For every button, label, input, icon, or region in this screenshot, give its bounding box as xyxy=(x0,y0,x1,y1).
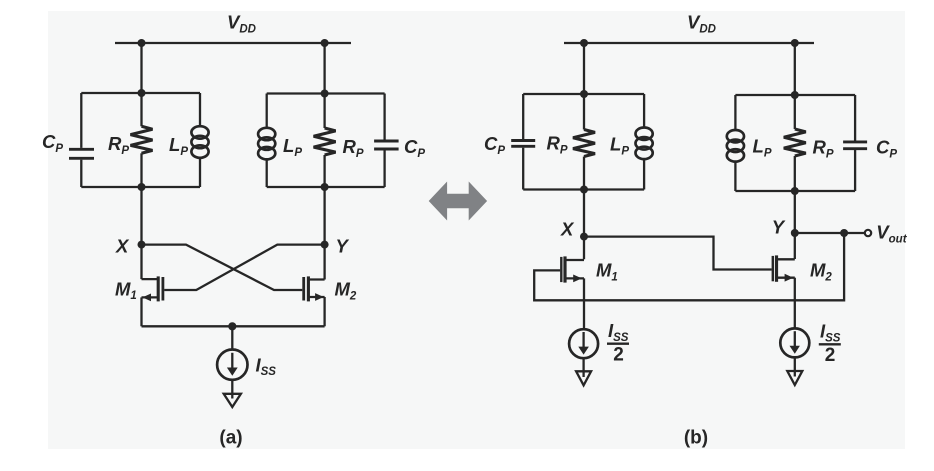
resistor RP (a right) xyxy=(314,128,336,155)
wire right tank left edge lower (b) xyxy=(734,162,736,191)
resistor RP (b right) xyxy=(784,129,806,156)
junction VDD-right (b) xyxy=(791,39,799,47)
wire left tank right edge upper (a) xyxy=(199,93,201,126)
wire current source to ground arrow (b left) xyxy=(582,358,584,377)
svg-text:X: X xyxy=(115,236,130,257)
wire tank to node X (a) xyxy=(140,187,142,279)
resistor RP (a left) xyxy=(131,126,153,153)
net VDD rail (a) xyxy=(115,42,351,44)
wire left tank center lower (a) xyxy=(140,153,142,187)
svg-text:Y: Y xyxy=(772,216,786,237)
junction VDD-left (a) xyxy=(138,39,146,47)
wire rail to current source (a) xyxy=(231,326,233,350)
wire left tank left edge upper (a) xyxy=(80,93,82,148)
wire left tank right edge lower (a) xyxy=(199,158,201,187)
net VDD rail (b) xyxy=(564,42,814,44)
wire right tank top edge (a) xyxy=(267,92,385,94)
svg-text:(a): (a) xyxy=(219,427,242,448)
label ISS/2 (b left) xyxy=(607,320,629,366)
junction left tank bottom (b) xyxy=(580,186,588,194)
CIRCUIT-A xyxy=(42,12,425,449)
wire right tank left edge upper (b) xyxy=(734,95,736,130)
wire left tank top edge (b) xyxy=(523,93,644,95)
wire left tank bottom edge (b) xyxy=(523,188,644,190)
current source ISS/2 (b right) xyxy=(780,328,809,357)
current source ISS/2 (b left) xyxy=(569,329,598,358)
wire VDD to left tank (b) xyxy=(583,43,585,94)
transistor M2 (a) xyxy=(304,276,325,326)
transistor M2 (b) xyxy=(773,255,795,328)
wire VDD to right tank (a) xyxy=(323,43,325,94)
ground arrow (b left) xyxy=(576,371,591,385)
wire right tank center upper (b) xyxy=(794,95,796,129)
wire right tank left edge lower (a) xyxy=(266,160,268,187)
equivalence arrow xyxy=(429,182,487,221)
CIRCUIT-B xyxy=(484,12,908,449)
wire left tank center lower (b) xyxy=(583,157,585,190)
junction source rail (a) xyxy=(228,322,236,330)
junction Vout branch (b) xyxy=(840,229,848,237)
wire left tank right edge upper (b) xyxy=(643,94,645,127)
capacitor CP (a right) xyxy=(374,141,399,149)
inductor LP (b left) xyxy=(636,128,653,160)
junction right tank bottom (b) xyxy=(791,187,799,195)
junction left tank bottom (a) xyxy=(138,183,146,191)
wire right tank bottom edge (a) xyxy=(267,186,385,188)
wire current source to ground arrow (a) xyxy=(231,380,233,399)
svg-text:2: 2 xyxy=(825,345,836,366)
wire VDD to left tank (a) xyxy=(140,43,142,93)
svg-text:Y: Y xyxy=(336,236,350,257)
wire gate of M1 to Vout net (b) xyxy=(534,233,844,300)
wire right tank right edge upper (a) xyxy=(383,94,385,140)
wire X to gate of M2 (a) xyxy=(142,245,303,290)
svg-text:2: 2 xyxy=(613,345,624,366)
wire left tank left edge upper (b) xyxy=(522,94,524,139)
wire Y to Vout terminal (b) xyxy=(795,232,865,234)
ground arrow (b right) xyxy=(787,371,802,385)
wire right tank bottom edge (b) xyxy=(735,190,855,192)
inductor LP (a left) xyxy=(191,126,208,158)
wire left tank bottom edge (a) xyxy=(81,186,200,188)
wire left tank top edge (a) xyxy=(81,92,200,94)
wire right tank right edge lower (a) xyxy=(383,150,385,187)
junction VDD-left (b) xyxy=(580,39,588,47)
junction right tank top (b) xyxy=(791,91,799,99)
node X (a) xyxy=(138,241,146,249)
capacitor CP (b right) xyxy=(843,142,867,149)
wire left tank center upper (a) xyxy=(140,93,142,126)
wire tank to node X (b) xyxy=(583,190,585,260)
wire right tank center lower (a) xyxy=(323,155,325,187)
node Y (b) xyxy=(791,229,799,237)
wire VDD to right tank (b) xyxy=(794,43,796,95)
junction left tank top (a) xyxy=(138,89,146,97)
wire right tank right edge lower (b) xyxy=(854,150,856,191)
node X (b) xyxy=(580,233,588,241)
capacitor CP (b left) xyxy=(511,141,535,147)
wire X to gate of M2 (b) xyxy=(584,237,772,270)
transistor M1 (b) xyxy=(561,256,584,329)
wire Y to gate of M1 (a) xyxy=(164,245,324,290)
wire left tank left edge lower (a) xyxy=(80,160,82,187)
wire left tank right edge lower (b) xyxy=(643,160,645,190)
junction left tank top (b) xyxy=(580,90,588,98)
wire left tank left edge lower (b) xyxy=(522,148,524,190)
capacitor CP (a left) xyxy=(69,149,94,158)
ground arrow (a) xyxy=(224,394,241,407)
wire common source rail (a) xyxy=(142,325,325,327)
junction VDD-right (a) xyxy=(321,39,329,47)
svg-text:X: X xyxy=(560,219,575,240)
label ISS/2 (b right) xyxy=(819,321,841,367)
inductor LP (a right) xyxy=(258,128,275,160)
wire left tank center upper (b) xyxy=(583,94,585,130)
wire right tank right edge upper (b) xyxy=(854,95,856,141)
svg-text:(b): (b) xyxy=(684,427,708,448)
transistor M1 (a) xyxy=(142,276,163,326)
junction right tank top (a) xyxy=(321,90,329,98)
terminal Vout xyxy=(865,230,871,236)
wire tank to node Y (b) xyxy=(794,191,796,259)
node Y (a) xyxy=(321,241,329,249)
wire right tank top edge (b) xyxy=(735,94,855,96)
wire right tank center upper (a) xyxy=(323,94,325,129)
wire right tank left edge upper (a) xyxy=(266,94,268,128)
wire current source to ground arrow (b right) xyxy=(794,358,796,377)
inductor LP (b right) xyxy=(727,130,744,162)
resistor RP (b left) xyxy=(573,130,595,157)
wire right tank center lower (b) xyxy=(794,156,796,191)
wire tank to node Y (a) xyxy=(323,187,325,280)
junction right tank bottom (a) xyxy=(321,183,329,191)
current source ISS (a) xyxy=(217,350,247,380)
